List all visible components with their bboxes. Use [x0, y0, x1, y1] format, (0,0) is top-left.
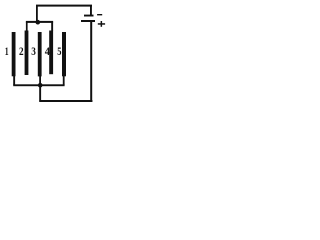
svg-text:4: 4	[45, 46, 50, 58]
svg-text:5: 5	[57, 46, 61, 58]
capacitor plate 4	[49, 31, 53, 75]
plus sign	[98, 21, 105, 27]
capacitor plate 5	[62, 32, 66, 76]
battery positive plate long	[81, 20, 95, 22]
wire lower horizontal	[39, 100, 92, 102]
wire top bus connecting plates 2 and 4	[26, 21, 53, 23]
node junction dot top	[36, 20, 41, 25]
wire stub to plate 4	[51, 22, 53, 32]
wire drop from bottom bus to lower wire	[39, 86, 41, 101]
wire stub below plate 5	[63, 76, 65, 85]
svg-text:2: 2	[19, 46, 24, 58]
wire drop from top wire to battery	[90, 6, 92, 15]
minus sign	[97, 14, 102, 15]
wire right vertical from battery to lower wire	[90, 21, 92, 102]
node junction dot bottom	[38, 83, 43, 88]
wire stub below plate 1	[13, 76, 15, 85]
capacitor plate 1	[12, 32, 16, 76]
wire stub to plate 2	[26, 22, 28, 32]
svg-text:3: 3	[31, 46, 36, 58]
battery negative plate short	[84, 15, 94, 17]
wire top horizontal	[36, 5, 92, 7]
capacitor plate 2	[25, 31, 29, 76]
svg-text:1: 1	[5, 46, 9, 58]
wire stub below plate 3	[39, 76, 41, 85]
wire bottom bus connecting plates 1 3 5	[13, 84, 64, 86]
wire riser from top bus to top wire	[36, 6, 38, 22]
capacitor plate 3	[38, 32, 42, 76]
